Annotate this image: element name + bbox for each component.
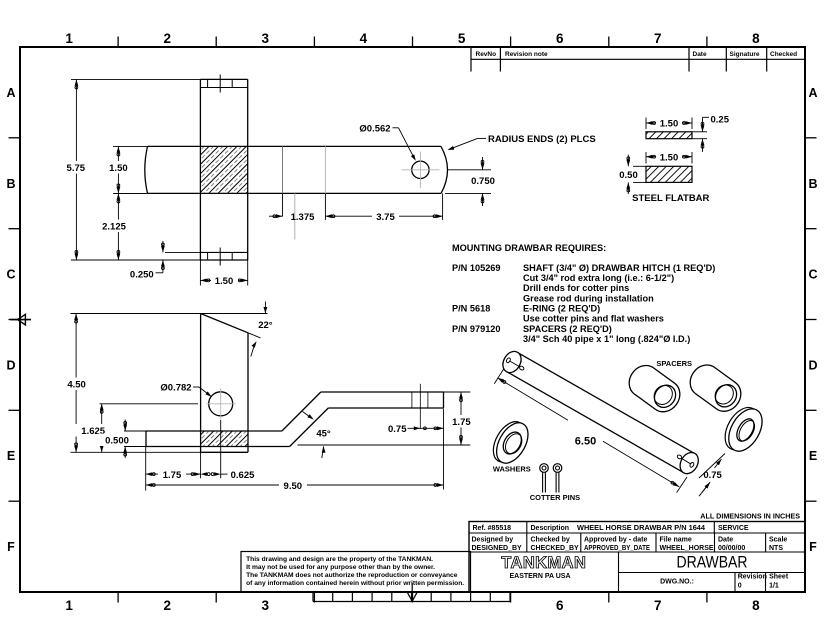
dimension 4.50 [71, 313, 201, 315]
svg-text:8: 8 [752, 31, 760, 46]
top view bend lines [282, 146, 284, 193]
pictorial cotter pin 2 [553, 464, 562, 473]
svg-text:A: A [6, 86, 15, 100]
side view section hatch [201, 431, 248, 447]
dimension 1.75 right [444, 391, 471, 393]
svg-text:MOUNTING DRAWBAR REQUIRES:: MOUNTING DRAWBAR REQUIRES: [452, 243, 606, 253]
svg-text:Ø0.782: Ø0.782 [160, 382, 191, 393]
svg-text:STEEL FLATBAR: STEEL FLATBAR [632, 193, 709, 204]
svg-text:45°: 45° [316, 428, 331, 439]
svg-text:It may not be used for any pur: It may not be used for any purpose other… [246, 564, 435, 571]
dimension 3.75 [442, 193, 444, 220]
svg-text:WASHERS: WASHERS [493, 464, 531, 473]
svg-text:0.50: 0.50 [619, 170, 638, 181]
dimension 9.50 [443, 409, 445, 490]
svg-text:Use cotter pins and flat washe: Use cotter pins and flat washers [523, 314, 664, 324]
top view drawbar bar outline [148, 145, 442, 147]
svg-text:3: 3 [262, 598, 270, 613]
svg-text:1.50: 1.50 [109, 163, 128, 174]
dimension 1.50 bar width [113, 145, 148, 147]
svg-text:DWG.NO.:: DWG.NO.: [660, 579, 694, 586]
side view hitch plate [200, 314, 202, 453]
top view hitch plate [199, 79, 201, 260]
svg-text:Grease rod during installation: Grease rod during installation [523, 293, 654, 303]
svg-text:ALL DIMENSIONS IN INCHES: ALL DIMENSIONS IN INCHES [700, 511, 800, 520]
svg-text:9.50: 9.50 [284, 481, 303, 492]
svg-text:6: 6 [556, 598, 564, 613]
svg-text:Sheet: Sheet [769, 574, 789, 581]
pictorial dimension 6.50 [494, 369, 504, 384]
svg-text:WHEEL_HORSE: WHEEL_HORSE [660, 545, 714, 552]
svg-text:RevNo: RevNo [476, 51, 497, 58]
svg-text:3.75: 3.75 [376, 212, 395, 223]
svg-text:Description: Description [531, 525, 570, 532]
svg-text:Designed by: Designed by [472, 537, 514, 544]
dimension 0.75 side view [408, 427, 444, 429]
pictorial shaft [499, 348, 702, 477]
svg-text:1: 1 [65, 31, 73, 46]
pictorial cotter pin 1 [540, 464, 549, 473]
svg-text:WHEEL HORSE DRAWBAR P/N 1644: WHEEL HORSE DRAWBAR P/N 1644 [577, 525, 705, 532]
svg-text:CHECKED_BY: CHECKED_BY [531, 545, 580, 552]
flatbar dimension 0.25 [692, 131, 707, 133]
svg-text:1.375: 1.375 [291, 212, 315, 223]
svg-text:Date: Date [718, 537, 733, 544]
svg-text:Date: Date [693, 51, 707, 58]
svg-text:6: 6 [556, 31, 564, 46]
svg-text:C: C [808, 268, 817, 282]
svg-text:0.25: 0.25 [711, 114, 730, 125]
dimension 1.625 [100, 403, 199, 405]
svg-text:F: F [809, 540, 817, 554]
svg-text:APPROVED_BY_DATE: APPROVED_BY_DATE [584, 545, 650, 552]
flatbar 0.50 section [646, 166, 692, 182]
svg-text:0: 0 [738, 583, 742, 590]
svg-text:COTTER PINS: COTTER PINS [530, 493, 580, 502]
top view plate top hole projection [207, 79, 209, 87]
side view 45 degree bend [282, 392, 321, 431]
svg-text:Checked: Checked [770, 51, 797, 58]
side view hole Dia 0.782 [209, 392, 233, 416]
svg-text:SPACERS (2 REQ'D): SPACERS (2 REQ'D) [523, 324, 612, 334]
side view bottom reference line [298, 444, 444, 446]
side view drawbar upper strip [321, 391, 444, 393]
svg-text:1.50: 1.50 [660, 152, 679, 163]
svg-text:Signature: Signature [730, 51, 760, 58]
pictorial dimension 0.75 [699, 454, 725, 479]
dimension 5.75 [71, 78, 200, 80]
svg-text:Ref. #85518: Ref. #85518 [473, 525, 512, 532]
svg-text:A: A [808, 86, 817, 100]
flatbar dimension 1.50 upper [645, 118, 647, 130]
svg-text:F: F [7, 540, 15, 554]
svg-text:D: D [808, 358, 817, 372]
svg-text:of any information contained h: of any information contained herein with… [246, 580, 464, 587]
dimension 22 degrees [201, 313, 268, 315]
svg-text:00/00/00: 00/00/00 [718, 545, 745, 552]
svg-text:DRAWBAR: DRAWBAR [677, 554, 748, 572]
dimension 0.750 [448, 169, 491, 171]
svg-text:Revision note: Revision note [505, 51, 548, 58]
svg-text:Drill ends for cotter pins: Drill ends for cotter pins [523, 283, 629, 293]
svg-text:E-RING (2 REQ'D): E-RING (2 REQ'D) [523, 304, 600, 314]
svg-text:Approved by - date: Approved by - date [584, 537, 648, 544]
bottom scale ruler strip [313, 601, 510, 603]
pictorial spacer 1 [623, 360, 686, 418]
pictorial shaft cotter pin hole right [677, 454, 683, 459]
svg-text:1.75: 1.75 [163, 470, 182, 481]
svg-text:22°: 22° [258, 320, 273, 331]
svg-text:3/4" Sch 40 pipe x 1" long (.8: 3/4" Sch 40 pipe x 1" long (.824"Ø I.D.) [523, 334, 690, 344]
svg-text:P/N 105269: P/N 105269 [452, 263, 501, 273]
top view section hatch [200, 146, 247, 193]
svg-text:3: 3 [262, 31, 270, 46]
pictorial washer left [487, 416, 535, 469]
grid column ticks bottom [117, 592, 119, 603]
svg-text:This drawing and design are th: This drawing and design are the property… [246, 556, 433, 563]
svg-text:1.50: 1.50 [660, 119, 679, 130]
svg-text:2: 2 [163, 31, 171, 46]
side view drawbar lower strip [146, 430, 282, 432]
flatbar 0.25 section [646, 132, 692, 139]
dimension 1.375 [282, 193, 284, 216]
svg-text:8: 8 [752, 598, 760, 613]
svg-text:Ø0.562: Ø0.562 [359, 123, 390, 134]
pictorial spacer 2 [684, 359, 747, 417]
revision table [470, 47, 472, 72]
svg-text:Scale: Scale [769, 537, 787, 544]
svg-text:D: D [6, 358, 15, 372]
pictorial washer right [718, 401, 769, 457]
svg-text:NTS: NTS [769, 545, 783, 552]
svg-text:Cut 3/4" rod extra long (i.e.:: Cut 3/4" rod extra long (i.e.: 6-1/2") [523, 273, 674, 283]
svg-text:0.750: 0.750 [471, 176, 495, 187]
svg-text:5: 5 [458, 31, 466, 46]
grid row ticks left [9, 137, 21, 139]
svg-text:E: E [809, 449, 817, 463]
pictorial shaft cotter pin hole left [506, 357, 511, 363]
left centering mark [10, 319, 31, 321]
svg-text:0.75: 0.75 [703, 470, 722, 481]
svg-text:0.625: 0.625 [231, 470, 255, 481]
grid column ticks top [117, 37, 119, 48]
svg-text:0.75: 0.75 [388, 424, 407, 435]
dimension 1.50 plate width [199, 260, 201, 286]
side view hole hidden lines in upper strip [411, 392, 413, 408]
svg-text:4: 4 [360, 31, 368, 46]
svg-text:EASTERN PA USA: EASTERN PA USA [509, 573, 570, 580]
svg-text:B: B [808, 177, 817, 191]
dimension 0.250 [165, 251, 200, 253]
svg-text:SPACERS: SPACERS [656, 359, 692, 368]
dimension 2.125 [114, 192, 146, 194]
svg-text:0.250: 0.250 [130, 270, 154, 281]
flatbar dimension 1.50 lower [645, 152, 647, 164]
svg-text:Checked by: Checked by [531, 537, 570, 544]
svg-text:1.75: 1.75 [452, 417, 471, 428]
flatbar dimension 0.50 [633, 165, 646, 167]
svg-text:Revision: Revision [738, 574, 767, 581]
svg-text:P/N 979120: P/N 979120 [452, 324, 501, 334]
svg-text:0.500: 0.500 [105, 436, 129, 447]
svg-text:B: B [6, 177, 15, 191]
dimension 0.500 [124, 430, 146, 432]
svg-text:6.50: 6.50 [575, 435, 596, 447]
svg-text:C: C [6, 268, 15, 282]
svg-text:File name: File name [660, 537, 692, 544]
svg-text:P/N 5618: P/N 5618 [452, 304, 490, 314]
svg-text:2: 2 [163, 598, 171, 613]
grid row ticks right [805, 137, 817, 139]
svg-text:E: E [7, 449, 15, 463]
svg-text:7: 7 [654, 31, 662, 46]
title block frame [469, 522, 805, 593]
svg-text:RADIUS ENDS (2) PLCS: RADIUS ENDS (2) PLCS [488, 134, 596, 145]
svg-text:The TANKMAM does not authorize: The TANKMAM does not authorize the repro… [246, 572, 458, 579]
svg-text:DESIGNED_BY: DESIGNED_BY [472, 545, 523, 552]
svg-text:4.50: 4.50 [67, 380, 86, 391]
svg-text:7: 7 [654, 598, 662, 613]
top view hole Dia 0.562 [412, 161, 429, 178]
svg-text:1: 1 [65, 598, 73, 613]
svg-text:SHAFT (3/4" Ø) DRAWBAR HITCH (: SHAFT (3/4" Ø) DRAWBAR HITCH (1 REQ'D) [523, 263, 715, 273]
top view plate bottom hole projection [207, 252, 209, 260]
svg-text:TANKMAN: TANKMAN [501, 554, 586, 572]
svg-text:2.125: 2.125 [102, 221, 126, 232]
svg-text:1.50: 1.50 [215, 276, 234, 287]
disclaimer box [241, 552, 471, 593]
svg-text:1/1: 1/1 [769, 583, 779, 590]
svg-text:SERVICE: SERVICE [718, 525, 749, 532]
bottom centering mark [411, 583, 413, 597]
dimension 1.75 / 0.625 chain [145, 447, 147, 491]
svg-text:5.75: 5.75 [67, 163, 86, 174]
